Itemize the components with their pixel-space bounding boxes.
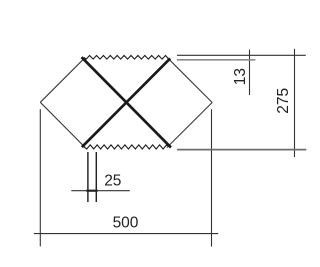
svg-text:275: 275	[275, 88, 292, 114]
svg-text:25: 25	[104, 173, 121, 190]
svg-text:500: 500	[113, 215, 139, 232]
svg-text:13: 13	[232, 68, 249, 85]
